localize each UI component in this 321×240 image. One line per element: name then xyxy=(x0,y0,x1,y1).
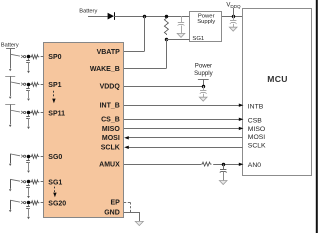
svg-text:CS_B: CS_B xyxy=(101,117,120,124)
capacitor filter to ground xyxy=(28,115,30,117)
resistor series filter xyxy=(30,180,39,184)
SG ground stub wire xyxy=(10,154,12,164)
wire resistor to AN0 node xyxy=(213,164,239,166)
wire to IC pin xyxy=(41,156,44,158)
ground arrow GND xyxy=(135,221,143,225)
svg-text:EP: EP xyxy=(110,200,120,207)
node junction xyxy=(27,201,31,205)
wire to IC pin xyxy=(41,112,44,114)
node VBAT junction xyxy=(143,15,146,18)
diode D1 xyxy=(108,13,114,20)
SG stub ground arrow xyxy=(9,164,12,166)
IC U1 battery monitor block xyxy=(44,43,124,218)
PS2 output terminal bar xyxy=(198,79,209,81)
ground arrow filter cap xyxy=(27,217,30,219)
node junction xyxy=(27,55,31,59)
ground arrow filter cap xyxy=(27,171,30,173)
svg-text:SG0: SG0 xyxy=(48,154,62,161)
svg-text:VDDQ: VDDQ xyxy=(100,83,121,90)
wire PS2 to VDDQ node xyxy=(203,79,205,86)
node AN0 filter junction xyxy=(222,163,225,166)
svg-text:MISO: MISO xyxy=(248,126,265,133)
wire AMUX from IC xyxy=(124,164,201,166)
svg-text:Supply: Supply xyxy=(194,70,214,77)
svg-text:Battery: Battery xyxy=(79,8,97,14)
wire PS1 to MCU supply xyxy=(222,16,243,18)
page right border line xyxy=(316,0,318,233)
wire VBATP to IC pin xyxy=(124,51,144,53)
capacitor C2 VDDQ decoupling xyxy=(233,16,235,21)
SG ground stub wire xyxy=(10,200,12,210)
battery stack wire segment 3 xyxy=(10,104,12,110)
battery stack wire segment 2 xyxy=(10,76,12,82)
wire junction down to WAKE_B xyxy=(166,39,168,68)
battery stack wire to cell 1 xyxy=(10,54,12,68)
svg-text:INTB: INTB xyxy=(248,104,264,111)
switch contact xyxy=(10,200,20,202)
node SG1 wake junction xyxy=(165,38,168,41)
wire battery to diode xyxy=(88,16,108,18)
svg-text:MISO: MISO xyxy=(102,126,120,133)
wire VBATP vertical xyxy=(144,16,146,52)
node junction xyxy=(27,180,31,184)
battery stack wire to cell 2 xyxy=(10,82,12,96)
ground arrow VDDQ pin cap xyxy=(199,97,207,101)
svg-text:SP1: SP1 xyxy=(48,82,61,89)
wire to IC pin xyxy=(41,202,44,204)
wire CS_B to MCU CSB xyxy=(124,119,239,121)
svg-text:MOSI: MOSI xyxy=(102,135,120,142)
wire to IC pin xyxy=(41,56,44,58)
capacitor filter to ground xyxy=(28,158,30,160)
switch contact xyxy=(10,179,20,181)
cell arrow 1 xyxy=(9,69,12,71)
svg-text:MCU: MCU xyxy=(267,74,287,84)
capacitor filter to ground xyxy=(28,86,30,88)
battery cell 2 plate xyxy=(5,104,15,106)
wire GND pin xyxy=(124,212,139,214)
svg-text:Battery: Battery xyxy=(1,43,19,49)
wire MOSI from MCU xyxy=(128,137,242,139)
node junction xyxy=(27,83,31,87)
capacitor filter to ground xyxy=(28,205,30,207)
svg-text:AN0: AN0 xyxy=(248,162,261,169)
svg-text:WAKE_B: WAKE_B xyxy=(90,66,120,73)
resistor R1 wake pull-up xyxy=(164,17,168,35)
svg-text:Power: Power xyxy=(195,62,212,69)
svg-text:SCLK: SCLK xyxy=(248,143,266,150)
svg-text:SG1: SG1 xyxy=(48,179,62,186)
resistor series filter xyxy=(30,111,39,115)
wire diode to power supply xyxy=(114,16,189,18)
wire VDDQ pin line xyxy=(124,86,203,88)
switch contact xyxy=(10,54,20,56)
wire SCLK from MCU xyxy=(128,147,242,149)
capacitor C3 VDDQ pin xyxy=(203,86,205,91)
svg-text:SG1: SG1 xyxy=(192,36,204,42)
node VDDQ supply junction xyxy=(232,15,235,18)
node junction xyxy=(27,155,31,159)
wire to IC pin xyxy=(41,181,44,183)
SG stub ground arrow xyxy=(9,210,12,212)
switch contact xyxy=(10,110,20,112)
switch contact xyxy=(10,82,20,84)
ground arrow AN0 cap xyxy=(219,181,227,185)
svg-text:SCLK: SCLK xyxy=(101,145,120,152)
ground arrow filter cap xyxy=(27,71,30,73)
ground arrow filter cap xyxy=(27,127,30,129)
power supply PS1 box xyxy=(190,12,222,42)
MCU block xyxy=(243,9,312,176)
svg-text:Supply: Supply xyxy=(197,19,215,25)
wire VDDQ label stub xyxy=(233,8,235,16)
resistor series filter xyxy=(30,55,39,59)
ellipsis continuation arrow between SG1 and SG20 xyxy=(54,187,56,189)
battery stack bottom arrow xyxy=(9,125,12,127)
SG stub ground arrow xyxy=(9,189,12,191)
cell arrow 2 xyxy=(9,97,12,99)
capacitor filter to ground xyxy=(28,59,30,61)
wire PS1 SG1 to junction xyxy=(166,39,189,41)
capacitor C1 battery input xyxy=(181,16,183,22)
wire to WAKE_B pin xyxy=(124,68,166,70)
node resistor top junction xyxy=(165,15,168,18)
svg-text:VBATP: VBATP xyxy=(97,49,121,56)
ground arrow filter cap xyxy=(27,99,30,101)
svg-text:CSB: CSB xyxy=(248,118,262,125)
battery cell 1 plate xyxy=(5,76,15,78)
svg-text:SP11: SP11 xyxy=(48,110,65,117)
node junction xyxy=(27,111,31,115)
wire EP dashed xyxy=(124,202,131,204)
resistor R2 AMUX series xyxy=(201,162,212,166)
svg-text:MOSI: MOSI xyxy=(248,134,265,141)
svg-text:SP0: SP0 xyxy=(48,54,61,61)
wire INT_B to MCU INTB xyxy=(124,105,239,107)
switch contact xyxy=(10,154,20,156)
svg-text:SG20: SG20 xyxy=(48,200,66,207)
battery stack wire segment 1 xyxy=(10,48,12,54)
resistor series filter xyxy=(30,201,39,205)
svg-text:GND: GND xyxy=(104,209,120,216)
ground arrow battery input cap xyxy=(177,33,185,37)
node VDDQ pin junction xyxy=(202,85,205,88)
capacitor C4 AN0 filter xyxy=(223,164,225,169)
ellipsis continuation arrow between SP1 and SP11 xyxy=(53,91,55,93)
battery stack top plate xyxy=(6,48,15,50)
resistor series filter xyxy=(30,83,39,87)
svg-text:AMUX: AMUX xyxy=(99,161,120,168)
ground arrow filter cap xyxy=(27,196,30,198)
capacitor filter to ground xyxy=(28,184,30,186)
battery stack wire bottom xyxy=(10,110,12,124)
wire to IC pin xyxy=(41,84,44,86)
resistor series filter xyxy=(30,155,39,159)
ground arrow VDDQ cap xyxy=(229,27,237,31)
SG ground stub wire xyxy=(10,179,12,189)
wire MISO to MCU xyxy=(124,128,239,130)
svg-text:INT_B: INT_B xyxy=(100,103,120,110)
